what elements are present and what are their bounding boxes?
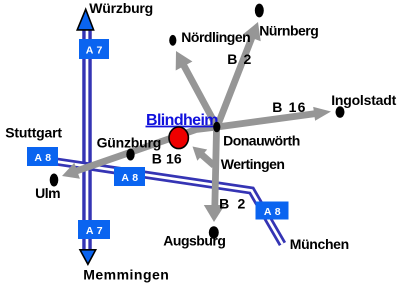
- arrowhead to Ingolstadt: [313, 107, 331, 121]
- node dot Ulm: [50, 174, 59, 187]
- arrowhead to Noerdlingen: [176, 51, 193, 71]
- svg-text:Memmingen: Memmingen: [83, 266, 169, 282]
- svg-text:B 2: B 2: [219, 195, 247, 211]
- svg-text:B 16: B 16: [152, 151, 182, 167]
- arrowhead to Augsburg: [204, 205, 225, 222]
- wire Wertingen access arrow shaft: [201, 154, 214, 166]
- wire B16 road to Ingolstadt: [217, 113, 318, 127]
- arrow tip A7 to Wuerzburg: [77, 9, 93, 30]
- wire B2 road to Augsburg: [215, 130, 217, 208]
- badge A8 middle: [114, 167, 145, 186]
- arrow tip A7 to Memmingen: [80, 250, 96, 264]
- wire A7 motorway white median: [86, 28, 89, 251]
- badge A7 south: [78, 220, 110, 239]
- svg-text:Ulm: Ulm: [35, 185, 60, 201]
- node Blindheim link underline: [146, 126, 219, 128]
- node dot Guenzburg: [126, 149, 134, 161]
- wire A8 motorway white median: [56, 162, 283, 245]
- arrowhead to Nuernberg: [243, 22, 261, 41]
- wire B16 road to Ulm via Guenzburg: [75, 127, 217, 172]
- arrowhead Wertingen access: [193, 147, 208, 161]
- svg-text:Donauwörth: Donauwörth: [223, 132, 300, 148]
- svg-text:Wertingen: Wertingen: [221, 156, 285, 172]
- node dot Noerdlingen: [169, 35, 176, 46]
- node dot Nuernberg: [255, 4, 264, 18]
- svg-text:Ingolstadt: Ingolstadt: [331, 92, 396, 108]
- svg-text:Stuttgart: Stuttgart: [5, 125, 62, 141]
- svg-text:Würzburg: Würzburg: [89, 0, 153, 16]
- svg-text:A 8: A 8: [264, 206, 281, 218]
- svg-text:B 16: B 16: [272, 99, 306, 115]
- svg-text:Nürnberg: Nürnberg: [259, 23, 318, 39]
- svg-text:A 8: A 8: [34, 152, 51, 164]
- svg-text:A 8: A 8: [121, 172, 138, 184]
- svg-text:Günzburg: Günzburg: [97, 134, 162, 150]
- badge A8 west: [27, 147, 58, 166]
- wire B-road to Noerdlingen: [183, 63, 217, 127]
- wire A7 motorway blue casing: [82, 28, 92, 251]
- svg-text:B 2: B 2: [227, 51, 252, 67]
- arrowhead to Ulm: [62, 163, 80, 179]
- svg-text:A 7: A 7: [86, 225, 103, 237]
- node dot Augsburg: [209, 226, 219, 239]
- svg-text:A 7: A 7: [86, 45, 103, 57]
- node Blindheim red marker: [169, 127, 188, 149]
- node dot Donauwoerth junction: [213, 122, 220, 133]
- svg-text:Nördlingen: Nördlingen: [181, 29, 250, 45]
- wire B2 road to Nuernberg: [217, 35, 253, 127]
- node dot Ingolstadt: [336, 106, 345, 118]
- badge A8 east: [256, 202, 289, 220]
- svg-text:München: München: [290, 236, 349, 252]
- svg-text:Blindheim: Blindheim: [146, 112, 218, 129]
- wire A8 motorway blue casing: [56, 162, 283, 245]
- badge A7 north: [79, 39, 109, 59]
